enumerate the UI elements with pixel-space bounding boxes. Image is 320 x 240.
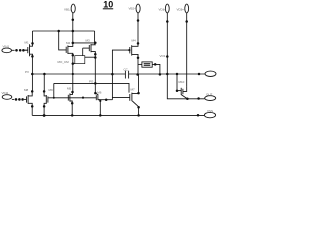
transistor QR (mirrored): [44, 91, 48, 106]
wire: gate row y=97.8 QR to M6: [48, 97, 96, 99]
wire: VJ to M10 gate: [183, 87, 187, 92]
wire: main rail y=74 left segment to cap: [32, 73, 125, 75]
wire: L2 stub from oval: [12, 98, 14, 100]
wire: QR drain up to rail: [43, 74, 45, 91]
node dot gate row x53.8: [53, 97, 55, 99]
svg-text:VIN2: VIN2: [2, 91, 9, 95]
node dot VD y42.7: [94, 41, 97, 44]
wire: vertical VC x=72.8 from T1 to M2: [72, 13, 74, 46]
wire: bottom rail y=115.4: [32, 114, 204, 116]
terminal L2: [2, 95, 12, 100]
node dot bottom x198: [197, 114, 200, 117]
terminal O1: [205, 71, 216, 76]
svg-text:VB1: VB1: [64, 8, 70, 12]
wire: vertical VD below M3: [94, 52, 96, 93]
dotted lead row2 b: [18, 98, 21, 101]
svg-text:M4: M4: [132, 39, 136, 43]
terminal T3: [165, 4, 169, 13]
node dot B2 right: [154, 63, 157, 66]
wire: vertical VG T2 down to M4: [137, 13, 139, 46]
transistor M2: [66, 45, 73, 54]
terminal O3: [204, 112, 215, 117]
label lead ticks: [70, 9, 185, 10]
node dot rail x159.9: [159, 73, 162, 76]
svg-text:M1: M1: [25, 40, 29, 44]
wire: B1 right tick: [85, 56, 96, 58]
wire: vertical x=177 rail to M10: [176, 74, 178, 91]
wire: vertical VD x=95 rail A corner down: [94, 31, 96, 44]
wire: B2 right to corner down to rail: [152, 64, 160, 75]
node dot QL bottom: [31, 105, 34, 108]
node dot M6 top: [94, 92, 97, 95]
node dot QR top: [43, 90, 46, 93]
node dot QL top: [31, 90, 34, 93]
wire: QL source down corner: [31, 106, 33, 115]
node dot M6 bottom: [99, 100, 101, 102]
node dot out wire x198.6: [197, 97, 200, 100]
svg-text:CC: CC: [124, 67, 129, 71]
svg-text:MO_CM: MO_CM: [58, 60, 70, 64]
node dot rail x32.3: [31, 73, 34, 76]
transistor M3: [83, 44, 96, 52]
node dot Q1 top: [31, 42, 34, 45]
node dot wire99 x106: [105, 98, 108, 101]
wire: rail A y=31: [33, 30, 95, 32]
dotted lead row1 c: [22, 49, 25, 52]
wire: B2 left tick: [138, 63, 142, 65]
node dot PG x95.3: [94, 82, 97, 85]
wire: vertical VC below M2: [72, 54, 74, 93]
svg-text:M5: M5: [67, 87, 71, 91]
node dot QR bottom: [43, 105, 46, 108]
wire: B1 bottom-left tick: [73, 63, 75, 65]
node dot M4 gate: [128, 49, 130, 51]
node dot rail x177: [176, 73, 179, 76]
node dot MO_CM: [72, 62, 75, 65]
wire: VE branch to M7 gate: [112, 97, 129, 99]
node dot rail x138: [136, 73, 139, 76]
terminal T1: [71, 4, 75, 13]
svg-text:VD1: VD1: [159, 8, 165, 12]
wire: vertical VA mid Q1 bottom to QL top: [31, 56, 33, 91]
wire: vertical VC below M5: [71, 101, 73, 115]
wire: vertical VG below M4 to rail: [137, 54, 139, 75]
node dot VC y42.9: [72, 42, 75, 45]
svg-text:PV: PV: [25, 70, 29, 74]
junction dots: [15, 19, 201, 117]
svg-text:M2: M2: [66, 41, 70, 45]
node dot rail x44.5: [43, 73, 46, 76]
svg-text:M7: M7: [131, 87, 135, 91]
node dot M2 bottom: [72, 54, 75, 57]
node dot M10 left: [176, 89, 179, 92]
wire: L2 dotted stub to QL gate: [24, 98, 27, 100]
wire: M3 gate down to B1: [82, 48, 84, 56]
transistor M6: [95, 93, 100, 100]
svg-text:VD2: VD2: [177, 8, 183, 12]
wire: vertical VI T3 down to rail: [166, 13, 168, 74]
node dot M5 bottom: [71, 102, 74, 105]
node dot M3 bottom: [94, 53, 97, 56]
svg-text:VB2: VB2: [129, 7, 135, 11]
dotted lead row1 b: [19, 49, 22, 52]
tiny labels (illegible at this scale): [2, 7, 214, 114]
node dot Q1 bottom: [31, 55, 34, 58]
node dot B1 right: [94, 56, 97, 59]
terminal T4: [185, 4, 189, 13]
node dot V2a: [137, 19, 140, 22]
svg-text:OUT: OUT: [206, 93, 213, 97]
wire: QR source down: [43, 106, 45, 115]
node dot bottom x72: [71, 114, 74, 117]
node dot gate row x83: [82, 97, 84, 99]
dotted lead row1 a: [15, 49, 18, 52]
node dot railA-T1: [72, 30, 75, 33]
wire: horizontal y=42.8 VC to VD: [73, 42, 96, 44]
svg-text:M8: M8: [24, 88, 28, 92]
node dot V1a: [72, 19, 75, 22]
node dot rail x167.3: [166, 73, 169, 76]
dotted lead row2 a: [15, 98, 18, 101]
wire: main rail y=74 cap to O1: [129, 73, 205, 75]
node dot V3 y56.5: [166, 55, 169, 58]
box B2: [142, 62, 152, 67]
svg-text:M3: M3: [86, 39, 90, 43]
node dot rail x72.8: [72, 73, 74, 75]
transistor M4: [130, 45, 138, 56]
wire: vertical VI below rail corner to output wire: [167, 74, 204, 99]
node dot M7 bottom: [137, 106, 140, 109]
terminal O2: [205, 96, 216, 101]
transistor QL: [27, 91, 33, 106]
node dot V4a: [185, 20, 188, 23]
transistor M10 (mirrored small): [177, 88, 187, 99]
wire: L1 stub from oval: [12, 49, 15, 51]
node dot tail x44: [43, 114, 46, 117]
node dot railA-VB: [57, 30, 60, 33]
node dot rail x199: [198, 73, 201, 76]
wire: vertical VB from rail to M2 gate: [59, 31, 66, 50]
node dot bottom x100: [99, 114, 102, 117]
svg-text:PG: PG: [89, 80, 94, 84]
node dot V3a: [166, 20, 169, 23]
wire: PG left corner down to gate row: [53, 83, 55, 97]
wire: L1 dotted stub to Q1 gate: [25, 49, 28, 51]
svg-text:VIN1: VIN1: [3, 44, 10, 48]
wire: M6 bottom wire y=99.7: [98, 99, 113, 101]
svg-text:M10: M10: [179, 80, 185, 84]
box B1: [75, 56, 85, 64]
wire: vertical VE M4 gate route: [112, 50, 129, 100]
svg-text:M6: M6: [97, 91, 101, 95]
node dot rail x112.5: [111, 73, 114, 76]
node dot bottom x138.6: [137, 114, 140, 117]
wire: M7 drain up to rail: [138, 74, 140, 93]
node dot M7 top: [137, 92, 140, 95]
node dot M5 top: [71, 91, 74, 94]
transistor M7: [130, 93, 139, 107]
svg-text:M9: M9: [49, 88, 53, 92]
terminal L1: [2, 48, 12, 53]
capacitor C1: [125, 71, 128, 79]
transistor Q1: [25, 44, 33, 57]
svg-text:VSS: VSS: [207, 109, 213, 113]
wire: M6 drain down to bottom rail: [99, 100, 101, 116]
wire: vertical VJ T4 down: [186, 13, 188, 87]
wire: PG rail y=83.4: [54, 83, 129, 92]
terminal T2: [136, 4, 140, 13]
dotted lead row2 c: [21, 98, 24, 101]
node dot M4 bottom: [137, 56, 140, 59]
transistor M5: [68, 92, 72, 102]
wire: vertical VA x=32.5 upper: [32, 31, 34, 44]
svg-text:10: 10: [103, 0, 113, 10]
title 10: [103, 0, 113, 10]
wire: M7 source down to bottom rail: [138, 107, 140, 116]
node dot M4 top: [137, 42, 140, 45]
node dot out wire x187.4: [186, 98, 189, 101]
svg-text:VO1: VO1: [160, 54, 166, 58]
